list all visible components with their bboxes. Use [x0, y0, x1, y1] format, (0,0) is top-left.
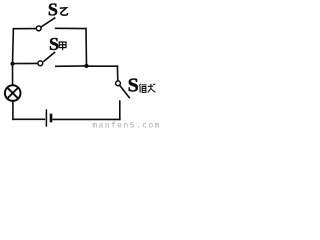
wire middle branch left: [13, 62, 39, 64]
battery plate short thick: [50, 114, 53, 123]
svg-text:S: S: [48, 0, 58, 20]
lamp L1 cross stroke 1: [7, 88, 18, 99]
label S guanzhang subscript guan character: [139, 84, 146, 93]
lamp L1 circle: [5, 85, 21, 101]
battery plate long thin: [45, 109, 47, 126]
switch S3 pivot circle: [116, 81, 121, 86]
wire bottom right: [52, 118, 120, 120]
label S jia subscript jia character: [59, 42, 66, 50]
switch S2 blade: [43, 52, 55, 62]
switch S1 pivot circle: [36, 26, 41, 31]
wire top branch right stub: [55, 27, 87, 29]
wire top branch left: [13, 28, 36, 30]
node junction left: [10, 62, 14, 66]
wire right vertical upper: [85, 28, 88, 66]
node junction right: [84, 64, 88, 68]
wire left rail upper: [12, 28, 15, 65]
svg-text:S: S: [49, 34, 59, 54]
switch S1 blade: [41, 18, 56, 28]
label S yi subscript yi character: [60, 8, 68, 15]
wire middle to right corner: [87, 65, 119, 67]
wire left rail bottom: [12, 101, 14, 120]
switch S3 blade: [120, 85, 130, 98]
wire lamp to junction: [12, 64, 14, 86]
label S guanzhang subscript zhang character: [148, 84, 156, 93]
lamp L1 cross stroke 2: [7, 88, 18, 99]
wire right rail lower: [119, 100, 121, 120]
svg-text:manfen5.com: manfen5.com: [92, 123, 161, 131]
wire middle branch right stub: [55, 65, 87, 67]
wire bottom left: [12, 118, 45, 120]
wire right vertical to switch S3: [116, 65, 118, 81]
switch S2 pivot circle: [38, 61, 43, 66]
svg-text:S: S: [128, 75, 139, 97]
